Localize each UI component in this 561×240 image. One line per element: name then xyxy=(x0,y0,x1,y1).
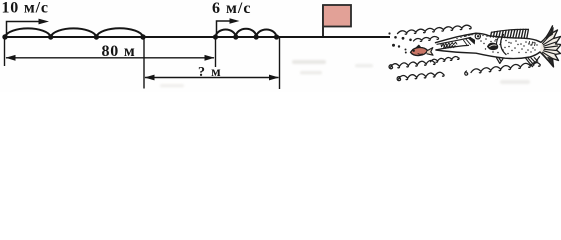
water wave under head xyxy=(431,57,460,63)
pike teeth lower xyxy=(444,45,456,48)
svg-text:? м: ? м xyxy=(198,65,222,80)
svg-text:6 м/с: 6 м/с xyxy=(212,0,251,17)
dimension vertical x=279.5 xyxy=(279,37,281,89)
dimension vertical x=215.5 xyxy=(215,37,217,67)
pike nostrils xyxy=(465,35,471,37)
pike back to tail xyxy=(489,36,541,43)
node dot A3 xyxy=(140,34,145,39)
small arc 2 xyxy=(236,29,256,37)
small arc 3 xyxy=(256,30,276,37)
pike pectoral dark blob xyxy=(488,43,498,49)
small arc 1 xyxy=(216,30,236,37)
flag xyxy=(323,5,351,27)
pike eye xyxy=(475,34,480,39)
pike tail xyxy=(540,26,561,67)
big arc 1 xyxy=(5,28,51,36)
speed arrow 6 m/s xyxy=(217,21,232,37)
pike anal fin xyxy=(526,57,540,67)
pike speckles xyxy=(456,34,537,54)
dimension vertical x=4.5 xyxy=(4,37,6,66)
flag pole xyxy=(322,5,324,38)
node dot B2 xyxy=(254,34,259,39)
water wave top xyxy=(398,25,472,34)
water wave left-bottom 2 xyxy=(397,72,444,80)
pike lower jaw bottom / belly xyxy=(436,50,540,59)
dimension arrow 80 m xyxy=(6,57,214,59)
dimension vertical x=144 xyxy=(143,37,145,89)
node dot B0 xyxy=(213,34,218,39)
big arc 3 xyxy=(96,28,143,36)
pike mouth corner shade xyxy=(469,38,475,44)
pike teeth upper xyxy=(441,42,457,47)
faint print bleed-through smudges xyxy=(160,60,530,87)
node dot B1 xyxy=(233,34,238,39)
node dot A2 xyxy=(94,34,99,39)
bubbles xyxy=(388,32,411,53)
water wave left-bottom 1 xyxy=(389,60,435,68)
water wave under belly xyxy=(471,62,540,73)
main baseline wire xyxy=(4,36,390,38)
water curl before belly wave xyxy=(465,71,468,75)
big arc 2 xyxy=(51,28,97,36)
speed arrow 10 m/s xyxy=(7,22,41,38)
pike dorsal comb xyxy=(491,29,529,38)
node dot A1 xyxy=(48,34,53,39)
dimension arrow ? m xyxy=(145,77,279,79)
svg-text:80 м: 80 м xyxy=(102,43,136,60)
svg-text:10 м/с: 10 м/с xyxy=(2,0,49,17)
pike gill xyxy=(501,35,506,55)
pike upper jaw lower edge xyxy=(437,38,471,45)
node dot B3 xyxy=(274,34,279,39)
small fish xyxy=(411,45,434,55)
pike pelvic fin xyxy=(497,58,504,64)
pike lower jaw top edge xyxy=(436,45,469,49)
pike back ticks near tail xyxy=(529,42,535,46)
node dot A0 xyxy=(2,34,7,39)
pike head top / forehead xyxy=(476,33,489,36)
pike upper jaw top edge xyxy=(436,33,477,42)
water wave short mid xyxy=(414,37,439,42)
